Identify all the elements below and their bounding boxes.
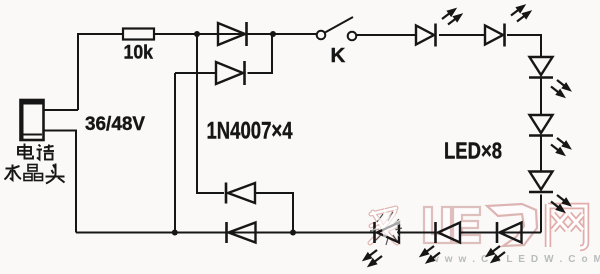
svg-text:w w w . C n L E D W . C o M: w w w . C n L E D W . C o M bbox=[430, 254, 600, 265]
svg-text:1N4007×4: 1N4007×4 bbox=[207, 118, 294, 145]
svg-text:36/48V: 36/48V bbox=[85, 113, 145, 135]
svg-text:LED×8: LED×8 bbox=[444, 138, 502, 164]
svg-text:K: K bbox=[331, 44, 346, 67]
svg-text:10k: 10k bbox=[124, 42, 154, 64]
